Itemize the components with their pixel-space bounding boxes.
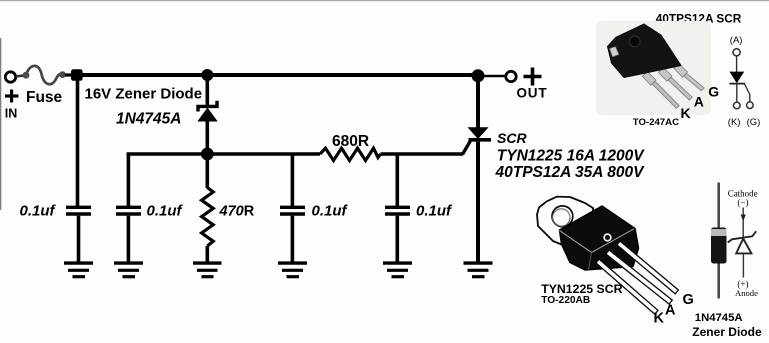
SCR triangle	[729, 72, 744, 84]
zener diode photo (1N4745A)	[711, 183, 727, 299]
svg-text:G: G	[683, 292, 694, 308]
label A (TO-247)	[694, 93, 704, 109]
cathode bar	[729, 83, 745, 85]
capacitor C4 0.1uf	[385, 154, 410, 262]
label K (TO-247)	[681, 105, 691, 121]
node middle (dot on rail at zener)	[201, 148, 214, 161]
SCR pin symbol (top right)	[728, 35, 761, 128]
svg-text:K: K	[681, 105, 691, 121]
TO-247 package photo (40TPS12A)	[596, 21, 711, 115]
ground G5	[383, 263, 412, 277]
zener triangle	[736, 239, 751, 254]
svg-text:(A): (A)	[730, 35, 743, 46]
label IN	[5, 107, 17, 121]
wire OUT stub	[478, 75, 506, 78]
shoulder K	[642, 72, 656, 86]
IN terminal	[5, 72, 15, 82]
node top of zener (dot)	[201, 69, 213, 81]
svg-text:Fuse: Fuse	[26, 89, 63, 106]
svg-text:0.1uf: 0.1uf	[147, 203, 184, 220]
label Fuse	[26, 89, 63, 106]
terminal G circle	[747, 102, 754, 109]
resistor R2 680R	[320, 148, 381, 160]
zener symbol (right of photo)	[728, 188, 758, 297]
shoulder G	[674, 64, 688, 78]
ground G2	[114, 263, 143, 277]
anode lead	[742, 253, 744, 277]
label 0.1uf (C3)	[312, 203, 349, 220]
svg-text:Zener Diode: Zener Diode	[692, 325, 762, 339]
svg-text:SCR: SCR	[497, 130, 527, 146]
svg-text:G: G	[708, 84, 719, 100]
wire top rail	[77, 73, 478, 77]
body	[608, 24, 682, 78]
TO-220 leg A	[606, 250, 672, 304]
direction arrow	[742, 208, 744, 239]
terminal K circle	[734, 102, 741, 109]
wire vertical from node A down to C1	[76, 75, 80, 206]
zener diode D1 1N4745A	[197, 75, 217, 154]
wire middle rail right segment	[381, 152, 464, 156]
svg-text:40TPS12A 35A 800V: 40TPS12A 35A 800V	[495, 164, 646, 181]
label 16V Zener Diode	[85, 86, 203, 103]
anode lead	[736, 56, 738, 72]
label TYN1225 16A 1200V	[497, 148, 645, 165]
gate lead	[745, 84, 750, 102]
ground G4	[278, 263, 307, 277]
thyristor Q1 SCR	[463, 75, 492, 262]
label A (TO-220)	[665, 302, 676, 318]
label 40TPS12A SCR (title top right)	[656, 12, 742, 26]
ground G3	[193, 263, 222, 277]
node A junction blob	[71, 69, 83, 81]
label SCR	[497, 130, 527, 146]
label 680R	[332, 133, 369, 150]
label OUT	[517, 86, 548, 101]
node SCR anode (dot)	[472, 69, 485, 82]
capacitor C2 0.1uf	[116, 154, 141, 262]
ground G1	[64, 263, 93, 277]
label TO-220AB	[541, 295, 590, 306]
svg-text:TO-247AC: TO-247AC	[633, 117, 679, 128]
svg-text:680R: 680R	[332, 133, 369, 150]
label TO-247AC	[633, 117, 679, 128]
svg-text:A: A	[694, 93, 704, 109]
wire middle rail left segment	[127, 152, 320, 156]
terminal A circle	[733, 49, 740, 56]
label 0.1uf (C1)	[20, 203, 57, 220]
svg-text:IN: IN	[5, 107, 17, 121]
TO-247 leg A (pin)	[668, 77, 692, 100]
label + (OUT polarity)	[524, 68, 542, 86]
TO-220 body	[560, 206, 639, 270]
zener bar	[728, 231, 756, 242]
svg-text:16V Zener Diode: 16V Zener Diode	[85, 86, 203, 103]
capacitor C1 0.1uf	[66, 207, 91, 262]
resistor R1 470R	[202, 154, 214, 262]
label + (IN polarity)	[5, 90, 18, 103]
label 1N4745A	[116, 111, 182, 128]
label 1N4745A (bottom right)	[695, 312, 743, 324]
svg-text:0.1uf: 0.1uf	[312, 203, 349, 220]
ground G6 (SCR cathode)	[464, 263, 493, 277]
svg-text:1N4745A: 1N4745A	[116, 111, 182, 128]
svg-text:Anode: Anode	[735, 288, 758, 298]
svg-text:TYN1225 16A 1200V: TYN1225 16A 1200V	[497, 148, 645, 165]
svg-text:470R: 470R	[219, 204, 255, 220]
label 0.1uf (C2)	[147, 203, 184, 220]
cathode lead	[736, 84, 738, 102]
svg-text:(K): (K)	[728, 117, 741, 128]
svg-text:OUT: OUT	[517, 86, 548, 101]
svg-text:0.1uf: 0.1uf	[20, 203, 57, 220]
mounting tab with hole	[537, 197, 593, 248]
TO-220 leg G	[617, 241, 679, 294]
wire IN to fuse	[16, 76, 23, 77]
label TYN1225 SCR	[541, 282, 622, 296]
TO-247 leg K (pin)	[652, 81, 679, 108]
label 470R	[219, 204, 255, 220]
fuse F1	[23, 66, 66, 84]
TO-220 leg K	[596, 259, 658, 314]
label Zener Diode (bottom right)	[692, 325, 762, 339]
wire fuse to node A	[65, 73, 73, 76]
label G (TO-247)	[708, 84, 719, 100]
TO-220 package (TYN1225)	[537, 197, 593, 248]
OUT terminal	[506, 71, 516, 81]
label G (TO-220)	[683, 292, 694, 308]
label 0.1uf (C4)	[416, 203, 453, 220]
svg-text:0.1uf: 0.1uf	[416, 203, 453, 220]
shoulder A	[658, 68, 672, 82]
svg-text:TO-220AB: TO-220AB	[541, 295, 590, 306]
svg-text:(G): (G)	[747, 117, 761, 128]
svg-text:K: K	[654, 311, 665, 327]
label K (TO-220)	[654, 311, 665, 327]
svg-text:A: A	[665, 302, 676, 318]
svg-text:1N4745A: 1N4745A	[695, 312, 743, 324]
svg-text:(−): (−)	[737, 197, 748, 207]
label 40TPS12A 35A 800V	[495, 164, 646, 181]
capacitor C3 0.1uf	[280, 154, 305, 262]
TO-247 leg G (pin)	[684, 73, 704, 90]
